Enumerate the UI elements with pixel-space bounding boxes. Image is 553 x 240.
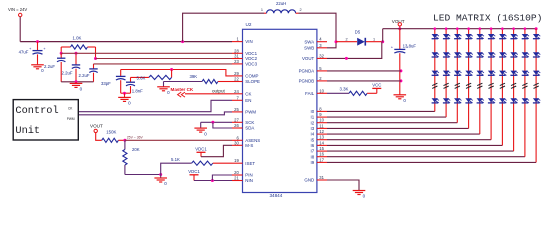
- svg-text:2: 2: [319, 76, 322, 81]
- svg-text:3.3K: 3.3K: [340, 86, 349, 91]
- svg-text:Master CK: Master CK: [171, 87, 194, 92]
- svg-text:34844: 34844: [270, 193, 283, 198]
- svg-text:26: 26: [234, 123, 239, 128]
- resistor 20K feedback lower: [123, 140, 140, 174]
- svg-text:+: +: [29, 46, 32, 51]
- svg-text:22uH: 22uH: [276, 1, 286, 6]
- LED string 6 (4 shown of 16): [488, 34, 495, 103]
- junction bus / string 5: [479, 27, 482, 30]
- svg-text:1: 1: [261, 8, 263, 12]
- wire IC GND net: [327, 180, 359, 190]
- svg-text:7: 7: [236, 95, 239, 100]
- wire VIN rail: [20, 41, 232, 43]
- wire switch node to diode: [336, 41, 357, 43]
- junction PGNDA to output ground: [399, 69, 402, 72]
- svg-text:13: 13: [319, 135, 324, 140]
- svg-text:SDA: SDA: [245, 126, 254, 131]
- svg-text:39K: 39K: [190, 74, 198, 79]
- svg-text:PWM: PWM: [67, 117, 75, 121]
- wire channel I8 to LED string 9: [327, 29, 525, 157]
- wire LED anode bus: [383, 28, 536, 30]
- svg-text:I5: I5: [311, 137, 315, 142]
- string 9 continuation marks: [522, 83, 527, 88]
- svg-text:SWA: SWA: [304, 39, 314, 44]
- svg-text:GND: GND: [304, 178, 314, 183]
- junction bus / string 6: [490, 27, 493, 30]
- svg-text:I2: I2: [311, 120, 315, 125]
- svg-text:11: 11: [319, 123, 324, 128]
- string 2 continuation marks: [444, 83, 449, 88]
- junction bus / string 8: [512, 27, 515, 30]
- power flag VDC1 for M-S: [195, 147, 207, 157]
- wire PIN net: [212, 175, 232, 181]
- wire CK net: [185, 93, 232, 95]
- junction VDC1 node: [60, 52, 63, 55]
- ground 47uF: [31, 65, 44, 73]
- LED string 5 (4 shown of 16): [477, 34, 484, 103]
- svg-text:20: 20: [234, 170, 239, 175]
- svg-text:1.0K: 1.0K: [73, 36, 82, 41]
- junction COMP / 5.6K: [170, 68, 173, 71]
- svg-text:VIN: VIN: [245, 39, 252, 44]
- capacitor 2.2uF #1: [44, 53, 65, 82]
- svg-text:20K: 20K: [132, 147, 140, 152]
- ground VDC caps: [70, 82, 83, 92]
- junction PIN/NIN tie: [211, 179, 214, 182]
- wire M-S net: [201, 145, 232, 156]
- svg-text:I4: I4: [311, 132, 315, 137]
- resistor 1.0K VDC filter: [61, 36, 95, 50]
- string 8 continuation marks: [511, 83, 516, 88]
- control unit box: [13, 100, 78, 140]
- junction bus end corner: [535, 27, 538, 30]
- string 1 continuation marks: [432, 83, 437, 88]
- string 4 continuation marks: [466, 83, 471, 88]
- ground ISET/divider: [154, 175, 167, 187]
- junction bus / string 1: [434, 27, 437, 30]
- svg-text:I7: I7: [311, 149, 315, 154]
- resistor 5.6K COMP: [131, 70, 172, 81]
- wire VDC cap ground rail: [61, 81, 93, 83]
- string 5 continuation marks: [477, 83, 482, 88]
- string 7 continuation marks: [500, 83, 505, 88]
- IC U2 MC34844 body: [243, 22, 317, 198]
- ground IC GND: [353, 191, 366, 199]
- LED string 1 (4 shown of 16): [432, 34, 439, 103]
- capacitor 33pF COMP: [101, 70, 126, 94]
- resistor 39K SLOPE: [164, 74, 233, 83]
- svg-text:PGNDB: PGNDB: [299, 79, 315, 84]
- junction ASENS divider: [123, 139, 126, 142]
- junction PGNDB to output ground: [399, 79, 402, 82]
- svg-text:3: 3: [319, 43, 322, 48]
- wire PWM net from control unit: [78, 112, 232, 115]
- svg-text:19: 19: [234, 158, 239, 163]
- VIN input terminal: [8, 7, 27, 17]
- string 3 continuation marks: [455, 83, 460, 88]
- svg-text:31: 31: [234, 54, 239, 59]
- LED string 10 (4 shown of 16): [533, 34, 540, 103]
- junction VDC2 node: [94, 57, 97, 60]
- string 10 continuation marks: [534, 83, 539, 88]
- svg-text:17: 17: [319, 157, 324, 162]
- svg-text:output: output: [212, 89, 225, 94]
- junction bus / string 4: [467, 27, 470, 30]
- svg-text:VDC2: VDC2: [245, 56, 257, 61]
- svg-text:0: 0: [128, 101, 131, 106]
- svg-text:1: 1: [373, 38, 375, 42]
- svg-text:22: 22: [234, 77, 239, 82]
- wire PGNDA net: [327, 70, 401, 72]
- svg-text:COMP: COMP: [245, 74, 258, 79]
- wire COMP net: [121, 70, 232, 76]
- capacitor 2.2uF #3: [79, 64, 98, 82]
- svg-text:30: 30: [234, 140, 239, 145]
- wire 20K to ground node: [125, 174, 161, 176]
- svg-text:2: 2: [300, 8, 302, 12]
- svg-text:21: 21: [234, 176, 239, 181]
- svg-text:SCK: SCK: [245, 120, 254, 125]
- capacitor 47uF input: [19, 42, 47, 65]
- svg-text:27: 27: [234, 117, 239, 122]
- svg-text:+: +: [43, 46, 46, 51]
- resistor 3.3K FAIL pullup: [327, 86, 377, 95]
- svg-text:0: 0: [204, 131, 207, 136]
- VOUT terminal top: [392, 19, 405, 29]
- VOUT feedback terminal: [90, 124, 103, 133]
- junction VOUT bus / cap: [398, 27, 401, 30]
- capacitor 13.8uF output: [391, 29, 417, 95]
- svg-text:EN: EN: [245, 98, 251, 103]
- wire channel I4 to LED string 5: [327, 29, 480, 134]
- svg-text:2.2uF: 2.2uF: [44, 64, 55, 69]
- wire inductor feed: [183, 13, 264, 41]
- wire COMP cap bottoms: [121, 92, 131, 94]
- svg-text:31: 31: [319, 175, 324, 180]
- svg-text:VDC3: VDC3: [245, 62, 257, 67]
- svg-text:D5: D5: [355, 30, 361, 35]
- svg-text:Control: Control: [15, 105, 58, 117]
- svg-text:VOUT: VOUT: [302, 56, 315, 61]
- wire channel I7 to LED string 8: [327, 29, 514, 151]
- LED string 7 (4 shown of 16): [499, 34, 506, 103]
- svg-text:8: 8: [319, 106, 322, 111]
- wire diode cathode to VOUT node: [366, 41, 383, 43]
- wire SWB to SWA tie: [327, 42, 336, 48]
- svg-text:24: 24: [234, 89, 239, 94]
- capacitor 1.8nF COMP: [126, 77, 143, 93]
- wire EN net from control unit: [78, 100, 232, 111]
- wire channel I3 to LED string 4: [327, 29, 469, 129]
- svg-text:VIN = 24V: VIN = 24V: [8, 7, 27, 12]
- svg-text:1.8nF: 1.8nF: [132, 88, 143, 93]
- wire channel I0 to LED string 1: [327, 29, 435, 112]
- junction switch node: [335, 40, 338, 43]
- svg-text:+: +: [391, 45, 394, 50]
- LED string 2 (4 shown of 16): [443, 34, 450, 103]
- wire channel I9 to LED string 10: [327, 29, 536, 163]
- wire ASENS net: [125, 139, 232, 141]
- svg-text:47uF: 47uF: [19, 50, 29, 55]
- wire SDA net: [213, 122, 232, 128]
- svg-text:10: 10: [319, 118, 324, 123]
- ground COMP network: [118, 93, 131, 105]
- svg-text:Unit: Unit: [15, 125, 40, 137]
- junction VIN rail / 47uF: [36, 40, 39, 43]
- wire inductor to switch node: [299, 13, 337, 42]
- junction cap2 bottom: [75, 80, 78, 83]
- svg-text:0: 0: [363, 194, 366, 199]
- diode D5 boost rectifier: [346, 30, 376, 46]
- svg-text:33pF: 33pF: [101, 81, 111, 86]
- svg-text:VCC: VCC: [372, 83, 381, 88]
- LED string 9 (4 shown of 16): [522, 34, 529, 103]
- svg-text:16: 16: [319, 152, 324, 157]
- wire VOUT bus riser: [382, 29, 384, 42]
- wire VIN vertical drop: [19, 17, 21, 42]
- wire SCK net: [201, 121, 232, 123]
- svg-text:M-S: M-S: [245, 143, 253, 148]
- label LED MATRIX (16S10P): [433, 13, 542, 24]
- svg-text:VDC1: VDC1: [188, 169, 200, 174]
- junction VOUT pin wire: [345, 57, 348, 60]
- LED string 3 (4 shown of 16): [454, 34, 461, 103]
- resistor 150K feedback upper: [96, 129, 125, 142]
- svg-text:32: 32: [319, 53, 324, 58]
- svg-text:5.1K: 5.1K: [171, 157, 180, 162]
- LED string 8 (4 shown of 16): [510, 34, 517, 103]
- ground SLOPE: [157, 82, 170, 96]
- wire channel I1 to LED string 2: [327, 29, 446, 117]
- svg-text:150K: 150K: [106, 129, 116, 134]
- svg-text:5: 5: [319, 66, 322, 71]
- junction SCK/SDA tie: [211, 121, 214, 124]
- wire channel I2 to LED string 3: [327, 29, 457, 123]
- ground output cap: [394, 95, 407, 103]
- junction ISET ground node: [159, 173, 162, 176]
- svg-text:VDC1: VDC1: [195, 147, 207, 152]
- junction diode cathode: [381, 40, 384, 43]
- wire 1.0K left to VDC1 node: [60, 47, 62, 53]
- capacitor 2.2uF #2: [62, 53, 81, 82]
- svg-text:PGNDA: PGNDA: [299, 69, 315, 74]
- string 6 continuation marks: [489, 83, 494, 88]
- svg-text:I9: I9: [311, 160, 315, 165]
- svg-text:U2: U2: [246, 22, 252, 27]
- node Master CK output off-page arrow: [178, 92, 185, 97]
- svg-text:2.2uF: 2.2uF: [79, 73, 90, 78]
- svg-text:9: 9: [319, 112, 322, 117]
- wire 1.0K right to VDC2 node: [95, 47, 97, 59]
- wire VDC1: [61, 52, 232, 54]
- junction bus / string 9: [524, 27, 527, 30]
- svg-text:1: 1: [236, 37, 239, 42]
- power flag VCC FAIL: [372, 83, 381, 94]
- svg-text:5.6K: 5.6K: [137, 75, 146, 80]
- svg-text:4: 4: [319, 37, 322, 42]
- svg-text:I8: I8: [311, 154, 315, 159]
- wire VDC2: [96, 58, 233, 60]
- svg-text:VOUT: VOUT: [90, 124, 103, 129]
- svg-text:I0: I0: [311, 109, 315, 114]
- svg-text:CK: CK: [245, 91, 251, 96]
- svg-text:PIN: PIN: [245, 173, 252, 178]
- power flag VDC1 for PIN/NIN: [188, 169, 200, 181]
- svg-text:0: 0: [80, 87, 83, 92]
- wire channel I5 to LED string 6: [327, 29, 491, 140]
- svg-text:29: 29: [234, 71, 239, 76]
- svg-text:I6: I6: [311, 143, 315, 148]
- svg-text:FAIL: FAIL: [305, 91, 315, 96]
- svg-text:NIN: NIN: [245, 178, 253, 183]
- wire channel I6 to LED string 7: [327, 29, 502, 146]
- junction bus / string 3: [456, 27, 459, 30]
- wire VOUT pin to cathode node: [327, 42, 382, 59]
- resistor 5.1K ISET: [161, 157, 232, 175]
- svg-text:0: 0: [164, 181, 167, 186]
- svg-text:2.2uF: 2.2uF: [62, 71, 73, 76]
- wire NIN net: [194, 180, 232, 182]
- svg-text:PWM: PWM: [245, 110, 256, 115]
- label divider note 25V-36V: [127, 136, 144, 140]
- svg-text:0: 0: [403, 98, 406, 103]
- inductor 22uH: [261, 1, 302, 13]
- junction cap2 top: [75, 52, 78, 55]
- LED string 4 (4 shown of 16): [465, 34, 472, 103]
- svg-text:2: 2: [346, 38, 348, 42]
- svg-text:10: 10: [319, 88, 324, 93]
- wire VDC3: [94, 63, 233, 65]
- svg-text:SWB: SWB: [304, 45, 314, 50]
- IC U2 left pin stubs and labels: [232, 37, 260, 184]
- svg-text:LED MATRIX (16S10P): LED MATRIX (16S10P): [433, 13, 542, 24]
- junction VIN rail / inductor feed: [181, 40, 184, 43]
- svg-text:12: 12: [319, 129, 324, 134]
- junction bus / string 7: [501, 27, 504, 30]
- svg-text:15: 15: [319, 146, 324, 151]
- svg-text:25V ~ 36V: 25V ~ 36V: [127, 136, 144, 140]
- svg-text:I3: I3: [311, 126, 315, 131]
- svg-text:25: 25: [234, 107, 239, 112]
- junction COMP caps ground: [123, 92, 126, 95]
- svg-text:23: 23: [234, 59, 239, 64]
- label Master CK output: [171, 87, 226, 94]
- svg-text:SLOPE: SLOPE: [245, 79, 260, 84]
- svg-text:I1: I1: [311, 115, 315, 120]
- junction bus / string 2: [445, 27, 448, 30]
- svg-text:ISET: ISET: [245, 161, 255, 166]
- ground SCK/SDA: [194, 122, 207, 136]
- svg-text:13.8uF: 13.8uF: [403, 44, 417, 49]
- svg-text:14: 14: [319, 140, 324, 145]
- wire PGNDB net: [327, 80, 401, 82]
- IC U2 right pin stubs and labels: [299, 37, 327, 183]
